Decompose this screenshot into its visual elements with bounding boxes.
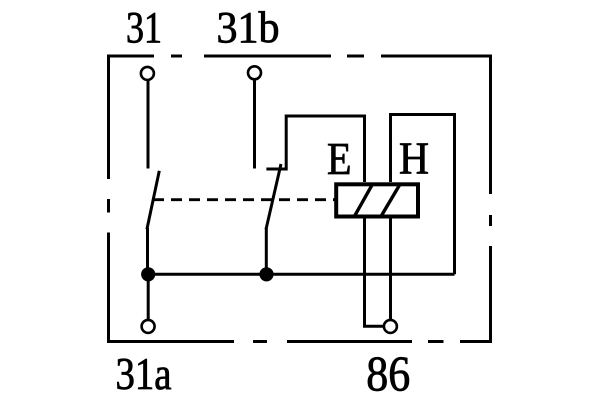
enclosure dash-dot outline right (489, 55, 492, 344)
wire from heater pin H bottom down to terminal 86 (389, 218, 392, 320)
enclosure dash-dot outline left (107, 55, 110, 344)
junction A (141, 267, 155, 281)
switch S1 blade (147, 171, 159, 230)
wire from heater pin E bottom down to terminal 86 (365, 218, 385, 326)
terminal 86 (384, 320, 397, 333)
svg-text:31a: 31a (116, 348, 172, 399)
svg-text:E: E (327, 133, 352, 184)
wire from heater pin H over and down to bottom bus (391, 115, 455, 275)
wire from junction A down to terminal 31a (147, 274, 150, 319)
switch S2 blade (266, 164, 281, 229)
wire from terminal 31b down to switch S2 fixed contact (253, 80, 256, 169)
enclosure dash-dot outline bottom (107, 340, 492, 343)
bottom bus wire from junction A to right riser (148, 273, 455, 276)
svg-text:H: H (399, 133, 429, 184)
heater element body (336, 184, 418, 216)
wire from switch S2 blade pivot up over to heater pin E (266, 116, 364, 182)
terminal 31b (248, 66, 261, 79)
junction B (259, 267, 273, 281)
wire from switch S1 blade down to junction A (146, 228, 149, 274)
svg-text:31b: 31b (217, 3, 280, 52)
heater element hatch stroke 1 (354, 184, 372, 217)
svg-text:31: 31 (126, 3, 162, 52)
svg-text:86: 86 (366, 345, 410, 400)
wire from switch S2 blade down to junction B (265, 228, 268, 274)
enclosure dash-dot outline top (107, 55, 492, 58)
terminal 31a (142, 320, 155, 333)
wire from terminal 31 down to switch S1 fixed contact (147, 81, 150, 169)
heater element hatch stroke 2 (381, 184, 400, 217)
terminal 31 (141, 67, 154, 80)
mechanical linkage dashed line (153, 198, 335, 201)
